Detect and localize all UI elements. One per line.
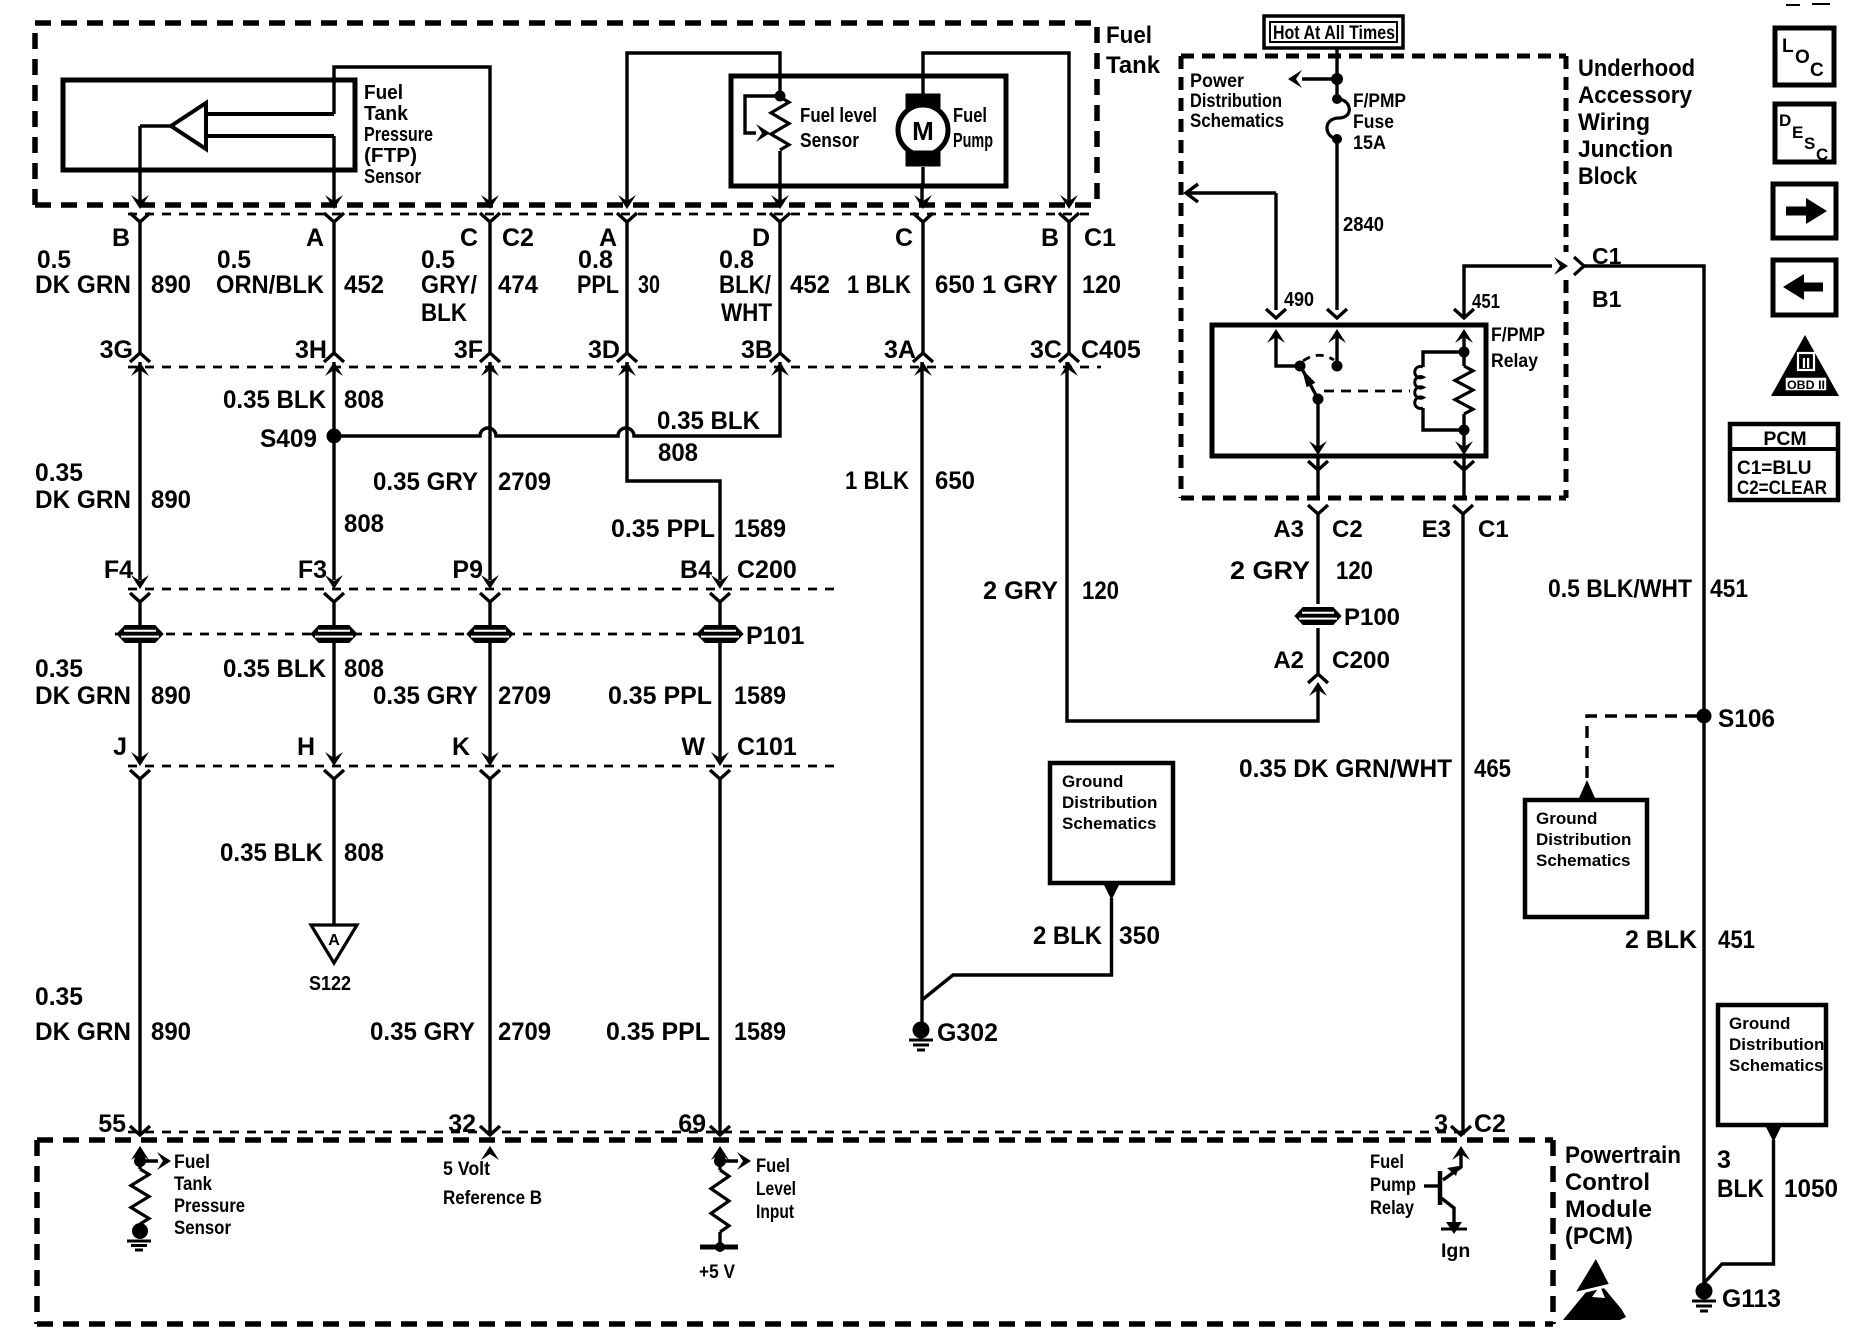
svg-text:C1: C1 (1478, 516, 1509, 543)
grommet P101 at x=140 (117, 626, 163, 643)
svg-text:0.35 GRY: 0.35 GRY (373, 468, 478, 496)
PCM pin chevron x=490 (480, 1126, 500, 1135)
svg-text:D: D (752, 224, 770, 252)
svg-text:P100: P100 (1344, 604, 1400, 631)
relay fuse contact wire (1335, 337, 1338, 366)
svg-text:Fuel: Fuel (364, 82, 403, 104)
relay switch throw dashed arc (1303, 355, 1334, 361)
svg-text:808: 808 (344, 510, 384, 538)
fuel level input pin wire (718, 1154, 721, 1161)
svg-text:808: 808 (344, 839, 384, 867)
wire B fuel pump top feed (923, 53, 1069, 205)
svg-text:3B: 3B (741, 336, 773, 364)
svg-text:PCM: PCM (1763, 428, 1806, 450)
svg-text:0.35: 0.35 (35, 655, 83, 683)
svg-text:C: C (460, 224, 478, 252)
svg-text:0.35 BLK: 0.35 BLK (223, 655, 326, 683)
svg-text:Fuel level: Fuel level (800, 105, 877, 127)
svg-text:(FTP): (FTP) (364, 145, 417, 167)
fuel level sensor resistor (771, 97, 789, 150)
svg-text:Ign: Ign (1441, 1240, 1470, 1262)
row2 connector at x=780 (770, 353, 790, 362)
wire K to pin 32 (488, 779, 491, 1135)
Hot At All Times box (1264, 16, 1403, 48)
svg-text:452: 452 (790, 271, 830, 299)
svg-text:C2=CLEAR: C2=CLEAR (1737, 478, 1827, 499)
svg-text:2840: 2840 (1343, 214, 1384, 236)
svg-text:Schematics: Schematics (1729, 1056, 1824, 1075)
ground distribution box 3 (1718, 1005, 1826, 1125)
svg-text:5 Volt: 5 Volt (443, 1158, 490, 1180)
svg-text:808: 808 (658, 439, 698, 467)
transistor base bar (1438, 1171, 1443, 1205)
row1 arrow at A (325, 195, 343, 209)
svg-text:Relay: Relay (1370, 1197, 1414, 1219)
svg-text:3D: 3D (588, 336, 620, 364)
relay 451 exit arrow (1455, 441, 1473, 455)
svg-text:3C: 3C (1030, 336, 1062, 364)
PCM connector dashed line (128, 1131, 1470, 1134)
page top specks (1786, 4, 1800, 6)
arrow into ground box 2 (1579, 780, 1595, 798)
svg-text:Powertrain: Powertrain (1565, 1142, 1681, 1169)
svg-text:Fuel: Fuel (1106, 22, 1152, 49)
svg-text:474: 474 (498, 271, 538, 299)
wire 490 vertical (1274, 193, 1277, 310)
connector row C200 dashed line (128, 588, 834, 591)
wire 2840 fuse to relay (1335, 139, 1338, 310)
PCM pin chevron x=720 (710, 1126, 730, 1135)
svg-text:0.35 PPL: 0.35 PPL (611, 515, 715, 543)
wire segment x=627 row1-row2 (625, 222, 628, 353)
svg-text:2 BLK: 2 BLK (1625, 926, 1697, 954)
transistor base lead (1424, 1184, 1439, 1187)
PCM pin chevron x=140 (130, 1126, 150, 1135)
svg-text:DK GRN: DK GRN (35, 682, 131, 710)
relay dashed link to coil (1324, 390, 1410, 393)
relay blade lower dot (1313, 394, 1324, 405)
junction edge chevron A3 (1308, 461, 1328, 470)
svg-text:S409: S409 (260, 425, 317, 453)
svg-text:P9: P9 (452, 556, 483, 584)
+5V rail bar (700, 1245, 738, 1250)
wire 451 up and over (1464, 266, 1552, 318)
wire segment x=720 grommet-C101 (718, 666, 721, 760)
connector marker at junction box edge (1554, 257, 1568, 275)
grommet row dashed line (115, 633, 740, 636)
row2 connector at x=923 (913, 353, 933, 362)
svg-text:ORN/BLK: ORN/BLK (216, 271, 324, 299)
svg-text:DK GRN: DK GRN (35, 271, 131, 299)
transistor collector arrow (1447, 1166, 1459, 1176)
svg-text:DK GRN: DK GRN (35, 486, 131, 514)
svg-text:C: C (895, 224, 913, 252)
svg-text:Sensor: Sensor (174, 1217, 231, 1239)
fuel level sensor junction dot (775, 91, 786, 102)
FTP sensor pin wire (138, 1154, 141, 1161)
svg-text:350: 350 (1119, 922, 1160, 950)
wire S106 down (1702, 716, 1705, 1290)
wire 3D PPL jog to B4 (627, 362, 720, 580)
dashed wire S106 to ground box 2 (1587, 716, 1697, 780)
icon box LOC (1775, 28, 1834, 85)
svg-text:0.5: 0.5 (37, 246, 71, 274)
svg-text:120: 120 (1336, 557, 1373, 585)
junction edge chevron E3 (1454, 461, 1474, 470)
FTP sensor blob (132, 1223, 148, 1239)
svg-text:S106: S106 (1718, 705, 1775, 733)
FTP sensor output wire (140, 124, 172, 127)
svg-text:BLK: BLK (1717, 1175, 1764, 1203)
svg-text:890: 890 (151, 486, 191, 514)
ground G302 (909, 1022, 933, 1051)
wire 3H to S409 (332, 362, 335, 436)
wire segment x=490 grommet-C101 (488, 666, 491, 760)
wire 3A to G302 (920, 362, 923, 1022)
svg-text:2 GRY: 2 GRY (1230, 557, 1310, 585)
transistor collector lead (1443, 1154, 1461, 1180)
ground G113 (1692, 1283, 1716, 1312)
wire segment x=140 grommet-C101 (138, 666, 141, 760)
svg-text:Block: Block (1578, 163, 1638, 190)
wire S409 down to F3 (332, 436, 335, 580)
FTP sensor resistor (138, 1161, 141, 1169)
svg-text:1 BLK: 1 BLK (847, 271, 911, 299)
svg-text:G302: G302 (937, 1019, 998, 1047)
wire FTP C column (334, 67, 490, 205)
fuel level sensor and pump box (731, 76, 1006, 186)
svg-text:C200: C200 (1332, 647, 1390, 674)
svg-text:OBD II: OBD II (1787, 378, 1825, 392)
svg-text:2709: 2709 (498, 682, 551, 710)
wire to Power Distribution arrow (1302, 77, 1337, 80)
FTP sensor arrow right (140, 1159, 158, 1162)
svg-text:69: 69 (678, 1110, 706, 1138)
ground distribution box 2 (1525, 800, 1647, 917)
wire 350 from box 1 (922, 898, 1112, 1000)
svg-text:Pressure: Pressure (174, 1195, 245, 1217)
svg-text:Junction: Junction (1578, 136, 1673, 163)
svg-text:890: 890 (151, 1018, 191, 1046)
svg-text:Pressure: Pressure (364, 124, 433, 146)
fuel level sensor wiper loop wire (745, 96, 780, 133)
row3 arrow at x=334 (325, 575, 343, 589)
svg-text:Fuel: Fuel (756, 1155, 790, 1177)
svg-text:465: 465 (1474, 755, 1511, 783)
Ign arrow (1446, 1222, 1462, 1234)
F/PMP relay box (1212, 325, 1486, 456)
svg-text:A2: A2 (1273, 647, 1304, 674)
svg-text:C2: C2 (502, 224, 534, 252)
svg-text:Wiring: Wiring (1578, 109, 1650, 136)
wire W to pin 69 (718, 779, 721, 1135)
svg-text:F/PMP: F/PMP (1353, 90, 1406, 112)
relay fuse contact dot (1332, 361, 1343, 372)
svg-text:PPL: PPL (577, 271, 619, 299)
FTP sensor ground (127, 1240, 151, 1243)
svg-text:Tank: Tank (1106, 52, 1161, 79)
svg-text:2 GRY: 2 GRY (983, 577, 1058, 605)
svg-text:Hot At All Times: Hot At All Times (1273, 23, 1395, 44)
S409 splice wire to 3B with hops (334, 362, 780, 436)
svg-text:D: D (1779, 111, 1791, 130)
svg-text:Pump: Pump (1370, 1174, 1416, 1196)
icon box DESC (1775, 104, 1834, 162)
relay coil bottom wire (1423, 408, 1464, 430)
svg-text:Relay: Relay (1491, 350, 1538, 372)
ESD warning symbol (1563, 1274, 1626, 1320)
svg-text:C1: C1 (1084, 224, 1116, 252)
svg-text:Distribution: Distribution (1062, 793, 1157, 812)
svg-text:A: A (328, 932, 340, 949)
svg-text:BLK/: BLK/ (719, 271, 771, 299)
arrow 490 to left (1186, 184, 1198, 202)
relay coil top wire (1423, 352, 1464, 367)
svg-text:WHT: WHT (721, 299, 772, 327)
svg-text:Power: Power (1190, 70, 1244, 92)
svg-text:F3: F3 (298, 556, 327, 584)
wire segment x=334 grommet-C101 (332, 666, 335, 760)
icon box arrow left (1773, 260, 1836, 315)
junction dot fuse feed (1331, 73, 1343, 85)
svg-text:1050: 1050 (1784, 1175, 1838, 1203)
wire J to pin 55 (138, 779, 141, 1135)
wire A2 to P100 (1316, 628, 1319, 674)
svg-text:C: C (1810, 60, 1824, 81)
svg-text:0.35: 0.35 (35, 459, 83, 487)
wire FTP B column (138, 126, 141, 205)
svg-text:0.5 BLK/WHT: 0.5 BLK/WHT (1548, 575, 1692, 603)
wire through grommet x=720 (718, 602, 721, 666)
svg-text:890: 890 (151, 682, 191, 710)
svg-text:15A: 15A (1353, 132, 1386, 154)
row1 arrow at A2 (618, 195, 636, 209)
splice dot S409 (327, 429, 342, 444)
svg-text:1 BLK: 1 BLK (845, 467, 909, 495)
wire through grommet x=490 (488, 602, 491, 666)
fuel level sensor wiper arrow (756, 124, 770, 142)
svg-text:0.35 PPL: 0.35 PPL (608, 682, 712, 710)
FTP sensor node dot (134, 1155, 146, 1167)
svg-text:F4: F4 (104, 556, 133, 584)
svg-text:Ground: Ground (1536, 809, 1597, 828)
svg-text:0.35: 0.35 (35, 983, 83, 1011)
wire 1050 from box 3 (1704, 1140, 1774, 1283)
svg-text:650: 650 (935, 271, 975, 299)
wire 3C to A2 via jog (1067, 362, 1318, 721)
relay resistor (1455, 366, 1473, 414)
PCM pin arrow x=490 (481, 1146, 499, 1160)
wire 490 horizontal (1186, 191, 1276, 194)
svg-text:A: A (306, 224, 324, 252)
svg-text:Tank: Tank (364, 103, 409, 125)
svg-text:120: 120 (1082, 577, 1119, 605)
op-amp triangle FTP sensor (171, 103, 206, 149)
underhood junction block dashed box (1181, 56, 1566, 498)
PCM dashed enclosure (37, 1140, 1553, 1324)
relay common exit arrow (1309, 441, 1327, 455)
svg-text:Schematics: Schematics (1062, 814, 1157, 833)
svg-text:M: M (912, 116, 934, 146)
svg-text:0.35 BLK: 0.35 BLK (657, 407, 760, 435)
wire H to S122 (332, 779, 335, 925)
svg-text:3F: 3F (454, 336, 483, 364)
svg-text:1589: 1589 (734, 682, 786, 710)
svg-text:0.8: 0.8 (578, 246, 613, 274)
svg-text:Control: Control (1565, 1169, 1650, 1196)
svg-text:L: L (1782, 36, 1794, 57)
transistor emitter lead (1440, 1197, 1454, 1226)
wire segment x=1069 row1-row2 (1067, 222, 1070, 353)
svg-text:55: 55 (98, 1110, 126, 1138)
svg-text:C1: C1 (1592, 243, 1622, 269)
svg-text:0.35 BLK: 0.35 BLK (223, 386, 326, 414)
row4 arrow at x=334 (325, 752, 343, 766)
wire A to fuel level sensor top (627, 53, 780, 205)
svg-text:3: 3 (1717, 1146, 1731, 1174)
splice triangle S122 (311, 925, 357, 963)
svg-text:Module: Module (1565, 1196, 1652, 1223)
row3 arrow at x=720 (711, 575, 729, 589)
svg-text:(PCM): (PCM) (1565, 1223, 1633, 1250)
icon box arrow right (1773, 184, 1836, 238)
svg-text:E: E (1792, 123, 1803, 142)
wire relay right to E3 (1462, 456, 1465, 498)
grommet P100 (1295, 608, 1341, 625)
svg-text:0.8: 0.8 (719, 246, 754, 274)
svg-text:2709: 2709 (498, 468, 551, 496)
fuel level input node dot (714, 1155, 726, 1167)
svg-text:C101: C101 (737, 733, 797, 761)
svg-text:890: 890 (151, 271, 191, 299)
svg-text:C: C (1816, 145, 1828, 164)
svg-text:J: J (113, 733, 127, 761)
wire fuel pump bottom (922, 167, 923, 205)
wire to +5V (718, 1232, 721, 1247)
svg-text:G113: G113 (1722, 1285, 1781, 1313)
row2 connector at x=1069 (1059, 353, 1079, 362)
relay switch common wire (1276, 337, 1300, 366)
row3 arrow at x=140 (131, 575, 149, 589)
svg-text:3: 3 (1434, 1110, 1448, 1138)
svg-text:F/PMP: F/PMP (1491, 324, 1545, 346)
svg-text:E3: E3 (1422, 516, 1451, 543)
PCM pin arrow x=720 (711, 1146, 729, 1160)
svg-text:Reference B: Reference B (443, 1187, 542, 1209)
svg-text:3H: 3H (295, 336, 327, 364)
svg-text:120: 120 (1082, 271, 1121, 299)
svg-text:2 BLK: 2 BLK (1033, 922, 1102, 950)
svg-text:Fuse: Fuse (1353, 111, 1394, 133)
relay blade arrowhead (1302, 369, 1315, 387)
connector row C101 dashed line (128, 765, 834, 768)
svg-text:451: 451 (1718, 926, 1755, 954)
connector row C2/C1 dashed line (128, 213, 1095, 216)
svg-text:Distribution: Distribution (1729, 1035, 1824, 1054)
below edge chevron A3 (1308, 505, 1328, 514)
wire through grommet x=334 (332, 602, 335, 666)
PCM pin arrow x=1461 (1452, 1146, 1470, 1160)
svg-text:Schematics: Schematics (1190, 110, 1284, 132)
svg-text:0.5: 0.5 (217, 246, 251, 274)
wire fuel level sensor bottom (778, 151, 781, 205)
svg-text:Fuel: Fuel (953, 105, 987, 127)
wire segment x=923 row1-row2 (921, 222, 924, 353)
fuse F/PMP symbol (1327, 99, 1349, 139)
relay coil top dot (1459, 347, 1470, 358)
svg-text:808: 808 (344, 655, 384, 683)
svg-text:Input: Input (756, 1201, 794, 1223)
svg-text:GRY/: GRY/ (421, 271, 477, 299)
svg-text:H: H (297, 733, 315, 761)
svg-text:0.5: 0.5 (421, 246, 455, 274)
svg-text:BLK: BLK (421, 299, 467, 327)
svg-text:2709: 2709 (498, 1018, 551, 1046)
PCM legend box (1730, 424, 1838, 500)
svg-text:Ground: Ground (1062, 772, 1123, 791)
svg-text:30: 30 (638, 271, 660, 299)
FTP sensor box (63, 80, 355, 170)
svg-text:32: 32 (448, 1110, 476, 1138)
wire Hot At All Times to fuse (1335, 48, 1338, 97)
svg-text:C2: C2 (1332, 516, 1363, 543)
row4 arrow at x=140 (131, 752, 149, 766)
svg-text:3A: 3A (884, 336, 916, 364)
PCM pin arrow x=140 (131, 1146, 149, 1160)
arrow out of ground box 3 (1766, 1127, 1781, 1142)
relay switch pivot dot (1295, 361, 1306, 372)
relay common to junction edge (1316, 456, 1319, 498)
fuel level input resistor (718, 1161, 721, 1170)
svg-text:B4: B4 (680, 556, 712, 584)
fuel level input arrow right (720, 1159, 738, 1162)
row4 arrow at x=490 (481, 752, 499, 766)
svg-text:3G: 3G (100, 336, 133, 364)
svg-text:0.35 DK GRN/WHT: 0.35 DK GRN/WHT (1239, 755, 1452, 783)
svg-text:A3: A3 (1273, 516, 1304, 543)
grommet P101 at x=334 (311, 626, 357, 643)
fuel pump commutator bottom (906, 151, 940, 166)
row1 arrow at B (131, 195, 149, 209)
svg-text:490: 490 (1284, 289, 1314, 311)
relay switch blade (1301, 367, 1318, 399)
wire segment x=334 row1-row2 (332, 222, 335, 353)
svg-text:451: 451 (1472, 291, 1500, 313)
fuel pump motor circle (898, 105, 948, 155)
ground distribution box 1 (1050, 763, 1173, 883)
svg-text:DK GRN: DK GRN (35, 1018, 131, 1046)
svg-text:B: B (1041, 224, 1059, 252)
svg-text:1589: 1589 (734, 515, 786, 543)
svg-text:Pump: Pump (953, 130, 993, 152)
connector row C405 dashed line (128, 366, 1101, 369)
svg-text:P101: P101 (746, 622, 804, 650)
svg-text:C2: C2 (1474, 1110, 1506, 1138)
fuel tank enclosure bottom edge (dashed) (35, 202, 1097, 208)
row A2/C200 connector (1308, 674, 1328, 683)
wire E3 to PCM (1461, 512, 1464, 1135)
relay coil (1415, 366, 1423, 408)
row1 arrow at Bp (1060, 195, 1078, 209)
PCM pin chevron x=1461 (1451, 1126, 1471, 1135)
wire 3F to P9 (488, 362, 491, 580)
svg-text:C1=BLU: C1=BLU (1737, 458, 1811, 479)
relay 451 internal wire (1462, 337, 1465, 352)
svg-text:B: B (112, 224, 130, 252)
svg-text:Sensor: Sensor (800, 130, 859, 152)
splice dot S106 (1697, 709, 1712, 724)
wire P100 to A3 (1316, 514, 1319, 604)
